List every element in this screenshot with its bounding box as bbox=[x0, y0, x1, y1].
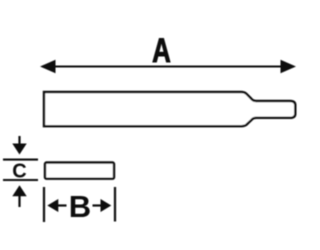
arrowhead A left bbox=[40, 60, 56, 73]
tick B right bbox=[114, 187, 116, 222]
dimension line A bbox=[52, 66, 284, 68]
arrow B right head bbox=[101, 199, 112, 212]
file profile body with tang bbox=[44, 92, 295, 126]
cross-section rectangle bbox=[45, 163, 114, 179]
svg-text:A: A bbox=[152, 33, 171, 70]
tick B left bbox=[43, 187, 45, 222]
arrow C down shaft bbox=[18, 136, 20, 146]
extension line C bottom bbox=[3, 179, 38, 181]
extension line C top bbox=[3, 159, 38, 161]
svg-text:B: B bbox=[69, 189, 91, 224]
arrow B left head bbox=[47, 199, 58, 212]
arrow B right shaft bbox=[93, 204, 103, 206]
svg-text:C: C bbox=[12, 161, 26, 183]
arrow C up shaft bbox=[18, 194, 20, 207]
arrowhead A right bbox=[281, 60, 297, 73]
arrow C up head bbox=[12, 185, 26, 196]
arrow C down head bbox=[12, 144, 26, 155]
arrow B left shaft bbox=[56, 204, 67, 206]
